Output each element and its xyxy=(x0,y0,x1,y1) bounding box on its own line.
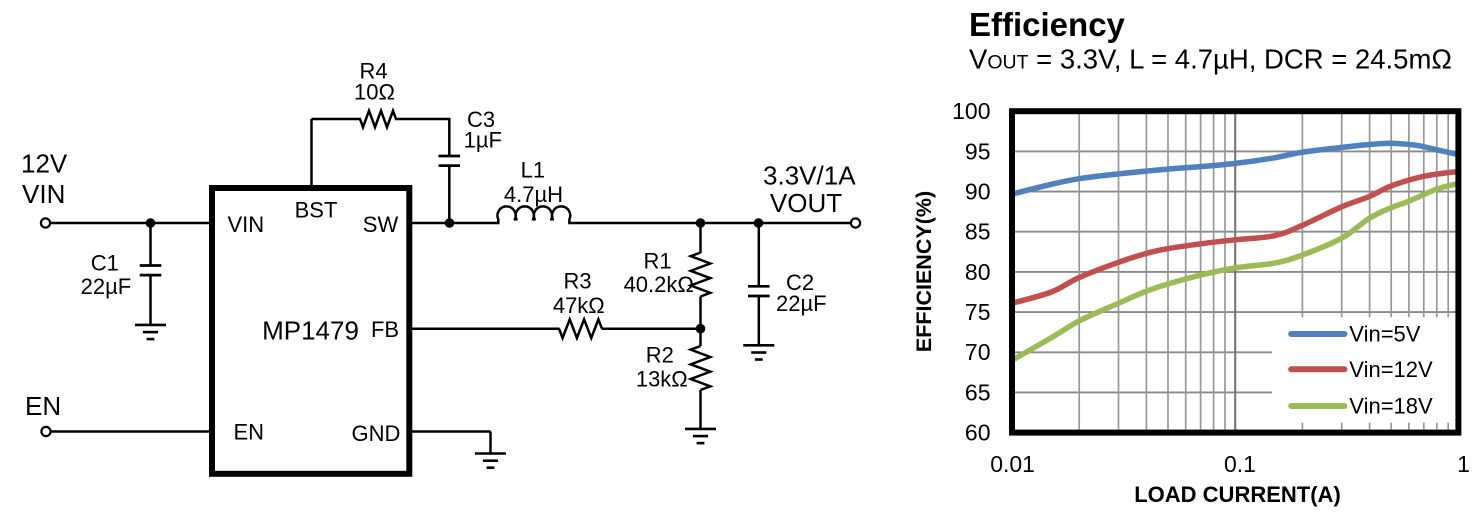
svg-text:VIN: VIN xyxy=(22,179,65,209)
svg-text:Efficiency: Efficiency xyxy=(969,6,1126,43)
svg-text:10Ω: 10Ω xyxy=(354,80,395,105)
svg-text:R3: R3 xyxy=(563,269,591,294)
svg-text:3.3V/1A: 3.3V/1A xyxy=(763,161,856,191)
svg-text:60: 60 xyxy=(965,420,991,446)
svg-text:75: 75 xyxy=(965,299,991,325)
svg-text:EFFICIENCY(%): EFFICIENCY(%) xyxy=(912,191,936,352)
svg-text:70: 70 xyxy=(965,339,991,365)
svg-text:Vin=5V: Vin=5V xyxy=(1349,322,1420,347)
svg-text:R2: R2 xyxy=(646,343,674,368)
svg-text:13kΩ: 13kΩ xyxy=(636,367,688,392)
svg-text:90: 90 xyxy=(965,179,991,205)
svg-text:47kΩ: 47kΩ xyxy=(553,293,605,318)
svg-text:FB: FB xyxy=(371,317,399,342)
svg-text:VOUT = 3.3V, L = 4.7µH, DCR =: VOUT = 3.3V, L = 4.7µH, DCR = 24.5mΩ xyxy=(969,44,1452,75)
svg-text:1: 1 xyxy=(1457,451,1470,477)
svg-text:40.2kΩ: 40.2kΩ xyxy=(624,272,694,297)
svg-text:100: 100 xyxy=(952,98,990,124)
svg-text:95: 95 xyxy=(965,138,991,164)
svg-text:VIN: VIN xyxy=(228,212,265,237)
svg-text:0.1: 0.1 xyxy=(1224,451,1256,477)
svg-text:Vin=12V: Vin=12V xyxy=(1349,357,1433,382)
svg-text:1µF: 1µF xyxy=(464,128,502,153)
svg-text:SW: SW xyxy=(363,212,399,237)
svg-text:80: 80 xyxy=(965,259,991,285)
svg-text:22µF: 22µF xyxy=(81,274,132,299)
svg-text:R1: R1 xyxy=(643,249,671,274)
svg-text:0.01: 0.01 xyxy=(990,451,1035,477)
svg-text:MP1479: MP1479 xyxy=(262,316,359,346)
svg-text:LOAD CURRENT(A): LOAD CURRENT(A) xyxy=(1134,482,1341,507)
svg-text:BST: BST xyxy=(295,198,338,223)
svg-text:Vin=18V: Vin=18V xyxy=(1349,394,1433,419)
svg-text:65: 65 xyxy=(965,379,991,405)
svg-text:GND: GND xyxy=(352,421,401,446)
svg-text:L1: L1 xyxy=(521,158,545,183)
svg-text:12V: 12V xyxy=(21,149,68,179)
svg-text:VOUT: VOUT xyxy=(770,188,842,218)
svg-text:EN: EN xyxy=(25,391,61,421)
svg-text:85: 85 xyxy=(965,219,991,245)
svg-text:C1: C1 xyxy=(91,251,119,276)
svg-text:22µF: 22µF xyxy=(776,291,827,316)
svg-text:4.7µH: 4.7µH xyxy=(504,182,563,207)
svg-text:EN: EN xyxy=(234,420,265,445)
